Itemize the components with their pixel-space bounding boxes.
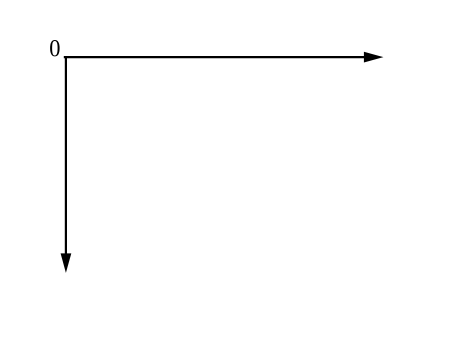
y-axis wire bbox=[65, 56, 67, 255]
origin label 0 bbox=[50, 40, 60, 56]
x-axis arrowhead bbox=[364, 52, 384, 63]
y-axis arrowhead bbox=[61, 253, 72, 273]
x-axis wire bbox=[64, 56, 365, 58]
